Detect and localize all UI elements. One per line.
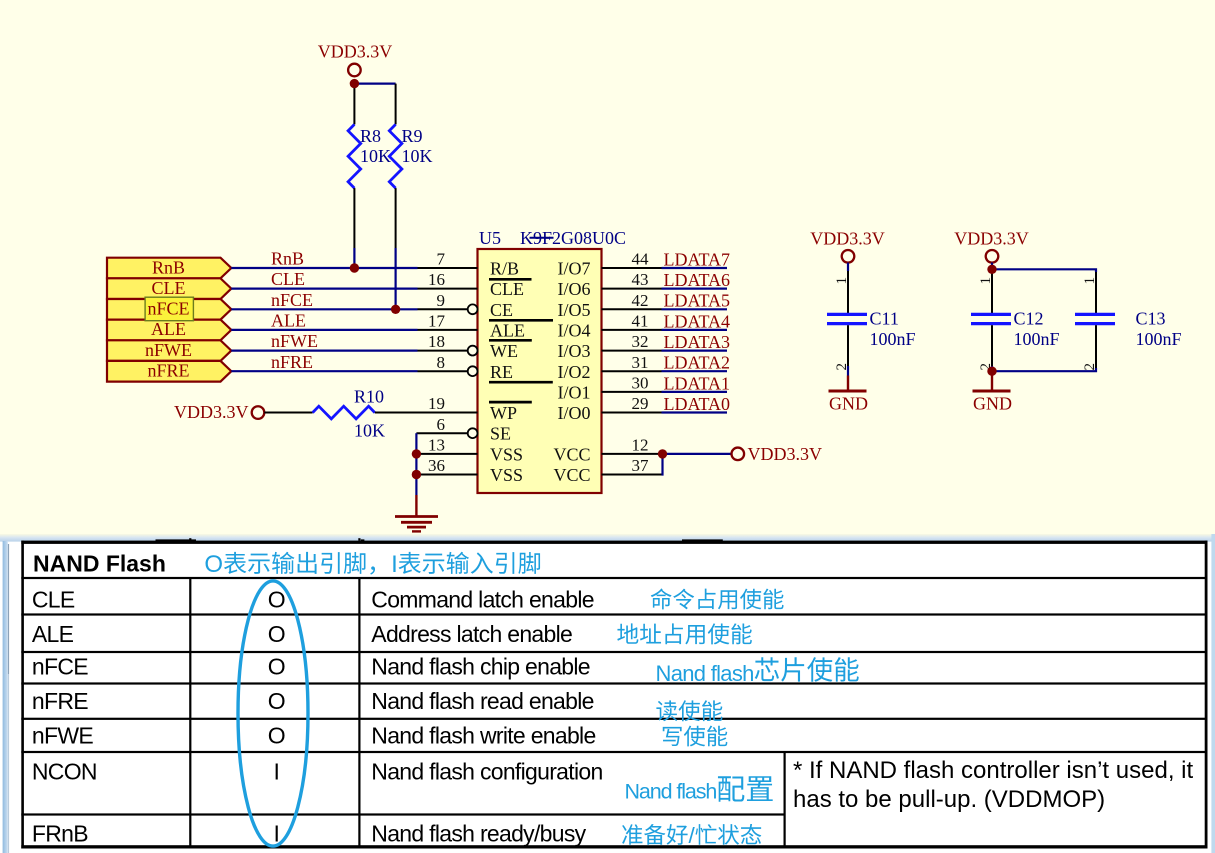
svg-text:30: 30 bbox=[632, 374, 649, 393]
net label nFRE bbox=[271, 352, 313, 372]
pin name overbar WP bbox=[489, 401, 532, 404]
svg-text:I/O7: I/O7 bbox=[558, 259, 591, 279]
label R9 value 10K bbox=[402, 146, 433, 166]
pin 37 VCC (right) bbox=[553, 456, 661, 485]
svg-text:7: 7 bbox=[437, 250, 446, 269]
svg-text:LDATA3: LDATA3 bbox=[664, 332, 731, 352]
pin number 1 of C12 bbox=[978, 277, 994, 285]
svg-text:Nand flash write enable: Nand flash write enable bbox=[371, 723, 595, 749]
label C12 value 100nF bbox=[1014, 329, 1060, 349]
svg-text:nFWE: nFWE bbox=[145, 340, 192, 360]
svg-text:nFWE: nFWE bbox=[271, 331, 318, 351]
svg-text:LDATA4: LDATA4 bbox=[664, 311, 731, 331]
port flag nFRE text bbox=[147, 361, 189, 381]
svg-text:2: 2 bbox=[1082, 363, 1098, 371]
wire net LDATA7 bbox=[662, 267, 728, 269]
wire net LDATA5 bbox=[662, 308, 728, 310]
svg-text:I/O3: I/O3 bbox=[558, 341, 591, 361]
label C11 value 100nF bbox=[870, 329, 916, 349]
svg-text:13: 13 bbox=[428, 436, 445, 455]
svg-text:ALE: ALE bbox=[271, 311, 306, 331]
net label LDATA4 bbox=[664, 311, 731, 331]
wire VCC to VDD3.3V bbox=[662, 454, 732, 475]
svg-text:NAND Flash: NAND Flash bbox=[33, 551, 166, 577]
pin 17 ALE (left) bbox=[418, 312, 526, 341]
net label LDATA0 bbox=[664, 394, 731, 414]
svg-text:VDD3.3V: VDD3.3V bbox=[748, 444, 823, 464]
port flag nFCE bbox=[107, 299, 231, 320]
ground symbol GND (C12) bbox=[973, 376, 1013, 414]
port flag CLE text bbox=[152, 278, 186, 298]
svg-text:SE: SE bbox=[490, 424, 511, 444]
pin 32 I/O3 (right) bbox=[558, 332, 662, 361]
svg-text:10K: 10K bbox=[354, 421, 385, 441]
table row nFWE bbox=[32, 723, 596, 749]
label C13 designator bbox=[1136, 309, 1166, 329]
svg-text:CE: CE bbox=[490, 300, 513, 320]
pin 44 I/O7 (right) bbox=[558, 250, 662, 279]
wire R9 to nFCE net bbox=[395, 248, 397, 309]
pin 16 CLE (left) bbox=[418, 270, 525, 299]
net label LDATA6 bbox=[664, 270, 731, 290]
port flag nFRE bbox=[107, 361, 231, 382]
table row NCON bbox=[32, 758, 603, 784]
svg-text:ALE: ALE bbox=[490, 320, 525, 340]
table row ALE bbox=[32, 621, 572, 647]
window edge strip right bbox=[1211, 534, 1215, 853]
svg-text:I/O4: I/O4 bbox=[558, 320, 591, 340]
svg-text:41: 41 bbox=[632, 312, 649, 331]
svg-text:GND: GND bbox=[973, 394, 1012, 414]
svg-text:R10: R10 bbox=[354, 387, 384, 407]
pin 41 I/O4 (right) bbox=[558, 312, 662, 341]
wire R10 to WP pin 19 bbox=[375, 412, 418, 414]
svg-text:CLE: CLE bbox=[271, 269, 305, 289]
annotation Nand flash配置 bbox=[625, 776, 773, 803]
junction dot VDD3.3V/R8/R9 bbox=[350, 79, 359, 88]
svg-text:32: 32 bbox=[632, 332, 649, 351]
table header NAND Flash bbox=[33, 551, 166, 577]
pin number 2 of C12 bbox=[978, 363, 994, 371]
svg-text:2: 2 bbox=[834, 363, 850, 371]
wire net nFCE bbox=[231, 308, 417, 310]
wire R8 to RnB net bbox=[353, 248, 355, 268]
svg-text:RE: RE bbox=[490, 362, 513, 382]
svg-text:FRnB: FRnB bbox=[32, 820, 88, 846]
svg-text:GND: GND bbox=[829, 394, 868, 414]
svg-text:RnB: RnB bbox=[152, 257, 185, 277]
svg-text:17: 17 bbox=[428, 312, 446, 331]
pin number 2 of C11 bbox=[834, 363, 850, 371]
wire SE/VSS down to ground bbox=[415, 433, 417, 495]
svg-text:O: O bbox=[268, 723, 286, 749]
annotation Nand flash芯片使能 bbox=[656, 657, 859, 686]
svg-text:Command latch enable: Command latch enable bbox=[371, 587, 594, 613]
svg-text:VDD3.3V: VDD3.3V bbox=[810, 229, 885, 249]
pin 18 WE (left) bbox=[418, 332, 518, 361]
power symbol VDD3.3V (right of U5) bbox=[732, 444, 823, 464]
pin number 1 of C13 bbox=[1082, 277, 1098, 285]
table row nFCE bbox=[32, 654, 590, 680]
svg-text:42: 42 bbox=[632, 291, 649, 310]
resistor R10 bbox=[313, 406, 375, 419]
pin 8 RE (left) bbox=[418, 353, 514, 382]
net label LDATA5 bbox=[664, 291, 731, 311]
svg-text:6: 6 bbox=[437, 415, 446, 434]
svg-text:WP: WP bbox=[490, 403, 517, 423]
svg-text:1: 1 bbox=[1082, 277, 1098, 285]
net label ALE bbox=[271, 311, 306, 331]
annotation 读使能 bbox=[656, 700, 722, 721]
label R8 designator bbox=[360, 126, 381, 146]
wire net LDATA1 bbox=[662, 391, 728, 393]
table row nFRE bbox=[32, 688, 594, 714]
label R10 designator bbox=[354, 387, 384, 407]
svg-text:LDATA7: LDATA7 bbox=[664, 249, 731, 269]
svg-text:29: 29 bbox=[632, 394, 649, 413]
pin number 1 of C11 bbox=[834, 277, 850, 285]
junction dot C12 top bbox=[987, 265, 996, 274]
svg-text:10K: 10K bbox=[360, 146, 391, 166]
junction dot VSS pin13 bbox=[412, 449, 421, 458]
port flag RnB bbox=[107, 258, 231, 279]
wire net RnB bbox=[231, 267, 417, 269]
junction dot R8-RnB bbox=[350, 263, 359, 272]
label R8 value 10K bbox=[360, 146, 391, 166]
selection highlight on nFCE bbox=[145, 297, 193, 321]
svg-text:has to be pull-up. (VDDMOP): has to be pull-up. (VDDMOP) bbox=[793, 786, 1105, 813]
svg-text:LDATA5: LDATA5 bbox=[664, 291, 731, 311]
annotation 写使能 bbox=[663, 726, 728, 747]
svg-text:9: 9 bbox=[437, 291, 446, 310]
svg-text:10K: 10K bbox=[402, 146, 433, 166]
schematic sheet background bbox=[0, 0, 1215, 542]
svg-text:C12: C12 bbox=[1014, 309, 1044, 329]
power symbol VDD3.3V (C11) bbox=[810, 229, 885, 263]
capacitor C13 bbox=[1075, 272, 1115, 368]
wire C12 to C13 top bbox=[992, 269, 1096, 272]
svg-text:Nand flash chip enable: Nand flash chip enable bbox=[371, 654, 590, 680]
label C12 designator bbox=[1014, 309, 1044, 329]
svg-text:I: I bbox=[391, 551, 398, 578]
wire VDD3.3V to R10 bbox=[264, 412, 312, 414]
port flag CLE bbox=[107, 278, 231, 299]
svg-text:1: 1 bbox=[978, 277, 994, 285]
window edge strip left bbox=[3, 541, 10, 853]
svg-text:Nand flash configuration: Nand flash configuration bbox=[371, 758, 602, 784]
table row CLE bbox=[32, 587, 594, 613]
power symbol VDD3.3V (C12) bbox=[954, 229, 1029, 263]
svg-text:VDD3.3V: VDD3.3V bbox=[174, 402, 249, 422]
svg-text:44: 44 bbox=[632, 250, 650, 269]
svg-text:18: 18 bbox=[428, 332, 445, 351]
svg-text:WE: WE bbox=[490, 341, 518, 361]
svg-text:100nF: 100nF bbox=[870, 329, 916, 349]
port flag nFWE text bbox=[145, 340, 192, 360]
wire net LDATA0 bbox=[662, 411, 728, 413]
net label LDATA3 bbox=[664, 332, 731, 352]
svg-text:I/O5: I/O5 bbox=[558, 300, 591, 320]
svg-text:O: O bbox=[268, 654, 286, 680]
pin name underbar ALE bbox=[489, 339, 532, 342]
resistor R9 bbox=[389, 84, 402, 248]
power symbol VDD3.3V (feeds R10) bbox=[174, 402, 264, 422]
wire net LDATA4 bbox=[662, 329, 728, 331]
svg-text:CLE: CLE bbox=[32, 587, 75, 613]
svg-text:VSS: VSS bbox=[490, 465, 523, 485]
note NCON pull-up bbox=[793, 757, 1193, 813]
wire VDD3.3V branch to R9 bbox=[354, 82, 395, 84]
capacitor C12 bbox=[971, 263, 1011, 376]
wire net LDATA2 bbox=[662, 370, 728, 372]
wire net nFWE bbox=[231, 350, 417, 352]
svg-text:* If NAND flash controller isn: * If NAND flash controller isn’t used, i… bbox=[793, 757, 1193, 784]
label R9 designator bbox=[402, 126, 423, 146]
svg-text:36: 36 bbox=[428, 456, 445, 475]
label U5 part number K9F2G08U0C bbox=[520, 228, 626, 248]
svg-text:nFRE: nFRE bbox=[32, 688, 88, 714]
svg-text:O: O bbox=[268, 587, 286, 613]
svg-text:NCON: NCON bbox=[32, 758, 97, 784]
pin 42 I/O5 (right) bbox=[558, 291, 662, 320]
table row FRnB bbox=[32, 820, 587, 846]
cyan highlight ellipse over O/I column bbox=[238, 581, 308, 846]
pin number 2 of C13 bbox=[1082, 363, 1098, 371]
label U5 designator bbox=[479, 228, 501, 248]
port flag nFCE text bbox=[147, 299, 189, 319]
port flag RnB text bbox=[152, 257, 185, 277]
svg-text:LDATA2: LDATA2 bbox=[664, 353, 731, 373]
wire net ALE bbox=[231, 329, 417, 331]
port flag ALE bbox=[107, 320, 231, 341]
svg-text:12: 12 bbox=[632, 435, 649, 454]
annotation 命令占用使能 bbox=[651, 588, 784, 609]
svg-text:nFRE: nFRE bbox=[271, 352, 313, 372]
pin name underbar RE bbox=[489, 381, 553, 384]
pin 36 VSS (left) bbox=[416, 456, 523, 485]
pin 9 CE (left) bbox=[418, 291, 514, 320]
svg-text:19: 19 bbox=[428, 394, 445, 413]
svg-text:C13: C13 bbox=[1136, 309, 1166, 329]
pin 6 SE (left) bbox=[416, 415, 511, 444]
annotation 地址占用使能 bbox=[617, 623, 752, 644]
svg-text:CLE: CLE bbox=[152, 278, 186, 298]
pin 43 I/O6 (right) bbox=[558, 270, 662, 299]
label C13 value 100nF bbox=[1136, 329, 1182, 349]
label C11 designator bbox=[870, 309, 899, 329]
svg-text:LDATA0: LDATA0 bbox=[664, 394, 731, 414]
net label nFWE bbox=[271, 331, 318, 351]
svg-text:O: O bbox=[268, 621, 286, 647]
svg-text:VCC: VCC bbox=[553, 465, 590, 485]
svg-text:I/O1: I/O1 bbox=[558, 382, 591, 402]
svg-text:VDD3.3V: VDD3.3V bbox=[318, 42, 393, 62]
table frame bbox=[21, 538, 1207, 848]
svg-text:43: 43 bbox=[632, 270, 649, 289]
svg-text:100nF: 100nF bbox=[1136, 329, 1182, 349]
port flag nFWE bbox=[107, 340, 231, 361]
junction dot VCC bbox=[658, 449, 667, 458]
svg-text:I/O2: I/O2 bbox=[558, 362, 591, 382]
resistor R8 bbox=[348, 88, 361, 248]
svg-text:Nand flash read enable: Nand flash read enable bbox=[371, 688, 593, 714]
svg-text:O: O bbox=[204, 551, 223, 578]
junction dot R9-nFCE bbox=[391, 305, 400, 314]
op-amp n/a: IC U5 K9F2G08U0C body bbox=[478, 249, 602, 493]
svg-text:37: 37 bbox=[632, 456, 650, 475]
net label LDATA7 bbox=[664, 249, 731, 269]
svg-text:VDD3.3V: VDD3.3V bbox=[954, 229, 1029, 249]
pin 13 VSS (left) bbox=[416, 436, 523, 465]
pin name underbar CE bbox=[489, 319, 553, 322]
pin 29 I/O0 (right) bbox=[558, 394, 662, 423]
svg-text:100nF: 100nF bbox=[1014, 329, 1060, 349]
pin 7 R/B (left) bbox=[418, 250, 520, 279]
svg-text:I: I bbox=[274, 758, 280, 784]
svg-text:Nand flash: Nand flash bbox=[625, 780, 717, 804]
svg-text:nFWE: nFWE bbox=[32, 723, 93, 749]
net label nFCE bbox=[271, 290, 313, 310]
svg-text:I/O0: I/O0 bbox=[558, 403, 591, 423]
junction dot VSS pin36 bbox=[412, 470, 421, 479]
svg-text:VSS: VSS bbox=[490, 444, 523, 464]
svg-text:I/O6: I/O6 bbox=[558, 279, 591, 299]
svg-text:16: 16 bbox=[428, 270, 445, 289]
ground symbol (U5 VSS) bbox=[395, 495, 438, 531]
svg-text:LDATA1: LDATA1 bbox=[664, 373, 731, 393]
svg-text:ALE: ALE bbox=[151, 319, 186, 339]
net label CLE bbox=[271, 269, 305, 289]
pin 19 WP (left) bbox=[418, 394, 518, 423]
wire net nFRE bbox=[231, 370, 417, 372]
svg-text:R/B: R/B bbox=[490, 259, 519, 279]
junction dot C12 bottom bbox=[987, 367, 996, 376]
table header note (cyan) bbox=[204, 551, 540, 578]
svg-text:C11: C11 bbox=[870, 309, 899, 329]
wire net CLE bbox=[231, 288, 417, 290]
pin 30 I/O1 (right) bbox=[558, 374, 662, 403]
ground symbol GND (C11) bbox=[829, 376, 869, 414]
svg-text:CLE: CLE bbox=[490, 279, 524, 299]
svg-text:R8: R8 bbox=[360, 126, 381, 146]
power symbol VDD3.3V (top, feeds R8/R9) bbox=[318, 42, 393, 77]
net label LDATA2 bbox=[664, 353, 731, 373]
wire (clipped marquee dashes at sheet bottom) bbox=[156, 539, 723, 541]
svg-text:nFCE: nFCE bbox=[147, 299, 189, 319]
svg-text:Address latch enable: Address latch enable bbox=[371, 621, 572, 647]
svg-text:nFCE: nFCE bbox=[32, 654, 88, 680]
net label LDATA1 bbox=[664, 373, 731, 393]
svg-text:ALE: ALE bbox=[32, 621, 74, 647]
svg-text:nFRE: nFRE bbox=[147, 361, 189, 381]
table grid lines bbox=[21, 577, 1207, 848]
svg-text:LDATA6: LDATA6 bbox=[664, 270, 731, 290]
wire net LDATA3 bbox=[662, 350, 728, 352]
svg-text:O: O bbox=[268, 688, 286, 714]
svg-text:8: 8 bbox=[437, 353, 446, 372]
svg-text:U5: U5 bbox=[479, 228, 501, 248]
svg-text:1: 1 bbox=[834, 277, 850, 285]
wire C12 to C13 bottom bbox=[992, 368, 1096, 371]
svg-text:R9: R9 bbox=[402, 126, 423, 146]
capacitor C11 bbox=[827, 263, 867, 376]
label R10 value 10K bbox=[354, 421, 385, 441]
net label RnB bbox=[271, 249, 304, 269]
svg-text:nFCE: nFCE bbox=[271, 290, 313, 310]
wire net LDATA6 bbox=[662, 288, 728, 290]
pin 31 I/O2 (right) bbox=[558, 353, 662, 382]
pin name overbar CLE bbox=[489, 278, 532, 281]
pin 12 VCC (right) bbox=[553, 435, 661, 464]
svg-text:/: / bbox=[689, 823, 696, 848]
svg-text:Nand flash ready/busy: Nand flash ready/busy bbox=[371, 820, 586, 846]
svg-text:31: 31 bbox=[632, 353, 649, 372]
annotation 准备好/忙状态 bbox=[622, 823, 761, 848]
port flag ALE text bbox=[151, 319, 186, 339]
svg-text:VCC: VCC bbox=[553, 444, 590, 464]
svg-text:Nand flash: Nand flash bbox=[656, 661, 754, 686]
svg-text:RnB: RnB bbox=[271, 249, 304, 269]
